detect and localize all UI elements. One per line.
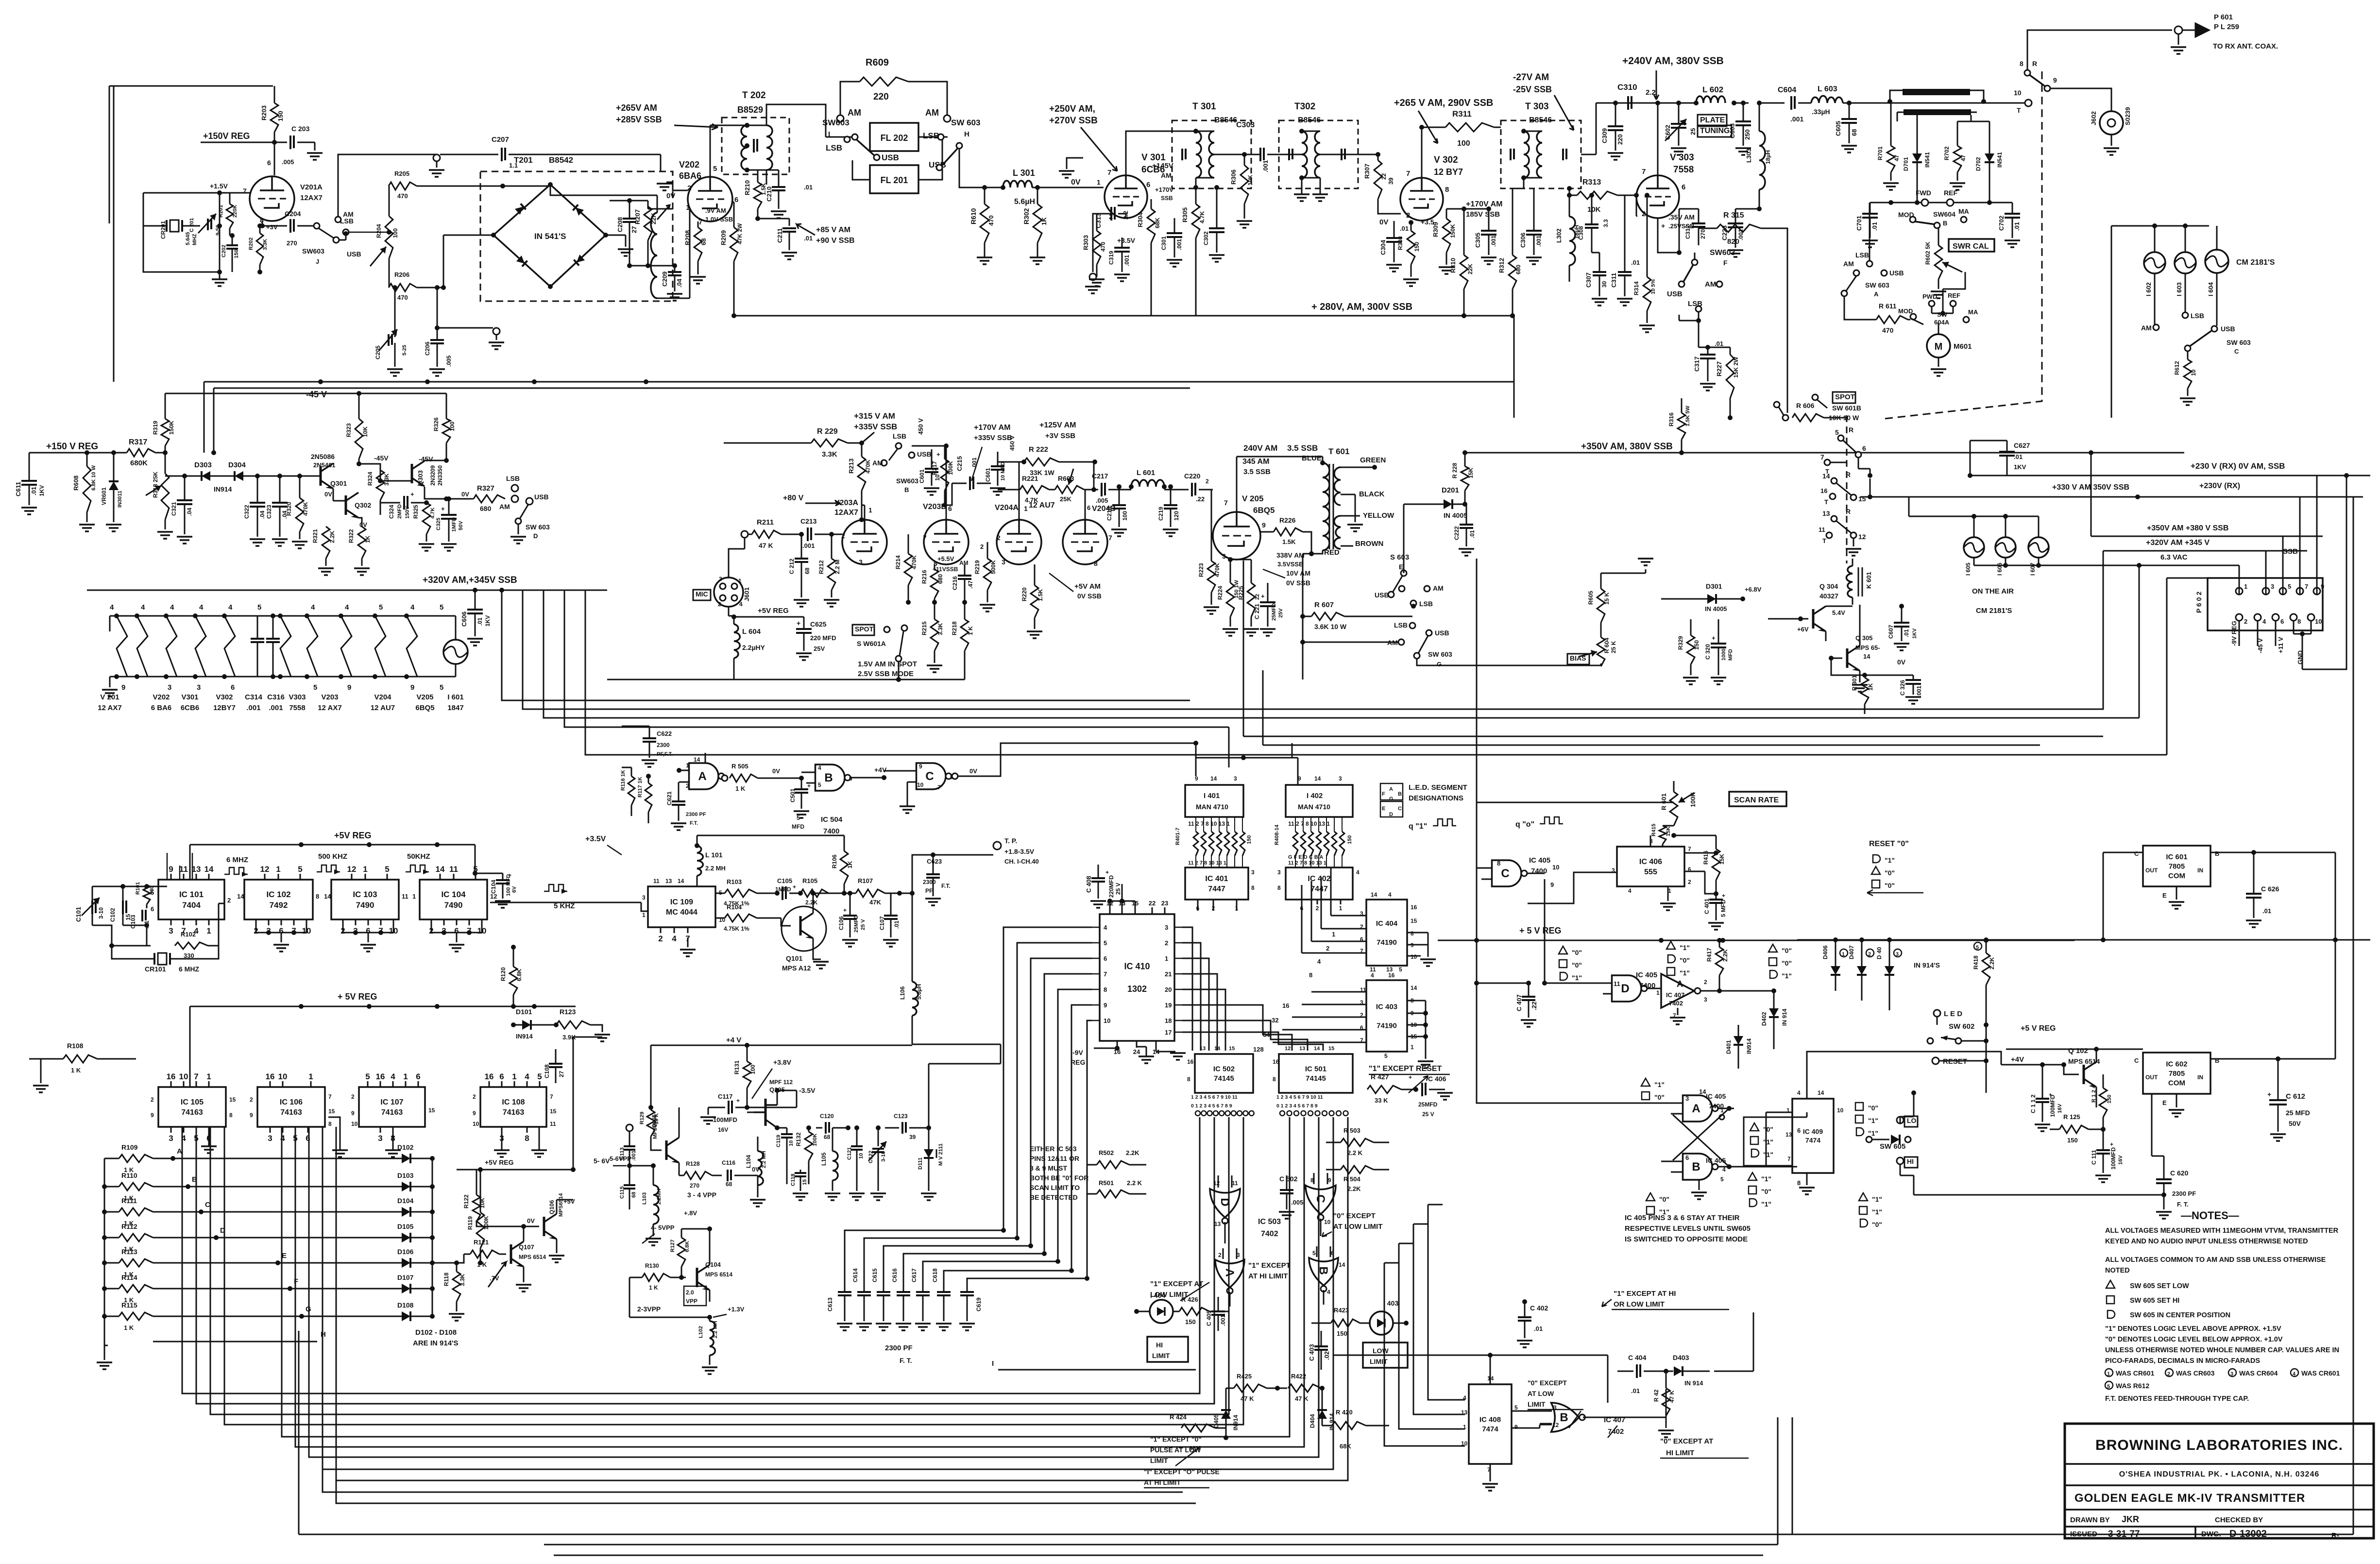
svg-text:"1" EXCEPT RESET: "1" EXCEPT RESET	[1369, 1065, 1442, 1073]
IC IC404 74190	[1360, 891, 1417, 973]
resistor R104 4.75K	[715, 903, 781, 932]
svg-text:"0": "0"	[1572, 949, 1582, 956]
svg-text:R101: R101	[135, 882, 141, 895]
svg-text:C303: C303	[1236, 121, 1255, 129]
svg-text:P L 259: P L 259	[2214, 23, 2239, 31]
wire 74190 to 7447	[1302, 873, 1331, 953]
tube V203A	[834, 499, 887, 566]
bus 5v right	[1797, 937, 2370, 942]
svg-text:"0": "0"	[1654, 1093, 1665, 1101]
LED I403	[1360, 1299, 1409, 1335]
svg-text:D401: D401	[1725, 1040, 1732, 1054]
svg-text:21: 21	[1165, 970, 1172, 978]
svg-text:+285V SSB: +285V SSB	[616, 115, 662, 124]
capacitor C402 .01	[1517, 1299, 1548, 1347]
connector P602	[2195, 578, 2324, 630]
svg-text:16: 16	[1388, 972, 1395, 979]
svg-text:C319: C319	[1108, 251, 1115, 265]
svg-text:C625: C625	[810, 620, 827, 628]
svg-text:R123: R123	[560, 1008, 576, 1016]
svg-text:68: 68	[631, 1192, 637, 1198]
svg-text:15: 15	[1858, 495, 1866, 503]
svg-text:12 AU7: 12 AU7	[371, 704, 395, 712]
svg-text:Q301: Q301	[330, 479, 347, 487]
wire q outputs	[1734, 1112, 1807, 1167]
svg-text:450 V: 450 V	[1009, 436, 1016, 451]
svg-text:R326: R326	[433, 417, 440, 431]
svg-text:4: 4	[311, 603, 315, 612]
svg-text:100MFD: 100MFD	[713, 1116, 737, 1123]
svg-text:I: I	[828, 130, 830, 138]
svg-text:2.2K: 2.2K	[1989, 957, 1995, 969]
resistor R319 150K	[152, 393, 175, 474]
text NOTES header	[2181, 1209, 2239, 1222]
svg-text:SW603: SW603	[1710, 249, 1735, 257]
svg-text:C621: C621	[666, 791, 673, 805]
svg-text:14: 14	[1339, 1261, 1345, 1268]
svg-text:R 606: R 606	[1796, 402, 1815, 409]
svg-text:F.T. DENOTES FEED-THROUGH TY: F.T. DENOTES FEED-THROUGH TYPE CAP.	[2105, 1395, 2249, 1403]
svg-text:"1": "1"	[1872, 1195, 1882, 1203]
capacitor C221 25MFD	[1254, 583, 1284, 636]
svg-text:R314: R314	[1633, 281, 1640, 295]
text 2.0VPP	[684, 1286, 706, 1306]
svg-text:V204B: V204B	[1092, 505, 1116, 513]
wire 63vac relay	[1868, 478, 1872, 499]
svg-text:BE DETECTED: BE DETECTED	[1030, 1193, 1078, 1201]
feedthrough staircase	[845, 1228, 1089, 1282]
svg-text:R227: R227	[1716, 361, 1723, 376]
thumbwheel contact rows	[1191, 1103, 1348, 1116]
svg-text:1MFD: 1MFD	[451, 517, 457, 532]
svg-text:+1.5V: +1.5V	[210, 182, 228, 190]
diode D201 IN4005	[1404, 486, 1467, 573]
svg-text:R226: R226	[1279, 516, 1296, 524]
svg-text:C702: C702	[1998, 216, 2005, 231]
svg-text:R304: R304	[1137, 212, 1144, 227]
svg-text:IC 501: IC 501	[1305, 1065, 1326, 1073]
IC IC106 74163	[250, 1072, 335, 1143]
svg-text:25V: 25V	[814, 645, 825, 652]
svg-text:100: 100	[1122, 511, 1128, 521]
waveform 500KHZ	[317, 852, 347, 874]
resistor R502 2.2K	[1087, 1149, 1146, 1169]
svg-text:.01: .01	[2013, 222, 2021, 231]
svg-text:V302: V302	[216, 693, 233, 701]
svg-text:1: 1	[412, 893, 416, 900]
svg-text:6.8K: 6.8K	[684, 1241, 690, 1252]
svg-text:IN 914: IN 914	[1684, 1379, 1703, 1387]
svg-text:"1": "1"	[1763, 1151, 1773, 1158]
IC IC602 7805	[2134, 1053, 2280, 1117]
svg-text:15 K: 15 K	[1603, 592, 1610, 605]
svg-text:R209: R209	[720, 230, 727, 245]
svg-text:MA: MA	[1958, 207, 1969, 215]
svg-text:C202: C202	[221, 245, 227, 257]
svg-text:8: 8	[1497, 860, 1500, 867]
capacitor C627 .01 1KV	[1970, 441, 2030, 476]
svg-text:V202: V202	[679, 160, 699, 170]
svg-text:"0" EXCEPT: "0" EXCEPT	[1333, 1212, 1376, 1220]
capacitor C604 .001	[1778, 86, 1803, 123]
svg-text:10: 10	[278, 1072, 288, 1081]
svg-text:7: 7	[1406, 170, 1410, 178]
svg-text:100: 100	[449, 422, 456, 431]
svg-text:2.2 MH: 2.2 MH	[713, 1321, 718, 1338]
svg-text:47 K: 47 K	[759, 542, 773, 549]
wire T301 out	[1214, 131, 1260, 154]
IC IC107 74163	[351, 1072, 435, 1143]
svg-text:150: 150	[1246, 835, 1252, 844]
svg-text:10 5%: 10 5%	[1650, 279, 1656, 294]
node LSB left	[826, 136, 850, 153]
svg-text:9: 9	[919, 763, 922, 770]
svg-text:5: 5	[257, 603, 261, 612]
annotation trio D	[1559, 946, 1582, 982]
svg-text:500 KHZ: 500 KHZ	[318, 852, 347, 861]
resistor R504 2.2K	[1326, 1166, 1389, 1192]
svg-text:20: 20	[1165, 986, 1172, 993]
svg-text:240V AM: 240V AM	[1243, 443, 1277, 453]
svg-text:2-3VPP: 2-3VPP	[637, 1305, 661, 1313]
node AM audio	[499, 495, 518, 510]
IC IC409 7474	[1785, 1089, 1844, 1194]
svg-text:3: 3	[168, 683, 171, 692]
svg-text:E: E	[1382, 806, 1385, 812]
resistor R608 6.8K 10W	[72, 453, 97, 531]
svg-text:A: A	[1677, 979, 1683, 989]
svg-text:1: 1	[1656, 989, 1660, 996]
svg-text:D102: D102	[397, 1143, 414, 1151]
wire D403 out	[1714, 1371, 1753, 1372]
capacitor C211 .01	[776, 228, 813, 259]
wire tube plates	[862, 443, 1085, 520]
svg-text:AM: AM	[848, 108, 861, 118]
svg-text:K 601: K 601	[1865, 572, 1872, 589]
svg-text:470K: 470K	[865, 459, 871, 474]
svg-text:BLACK: BLACK	[1359, 490, 1385, 498]
capacitor C316 .001	[266, 613, 280, 679]
svg-text:16: 16	[167, 1072, 176, 1081]
filter FL202	[870, 123, 918, 151]
svg-text:10: 10	[917, 782, 924, 788]
svg-text:1.1: 1.1	[509, 162, 518, 169]
svg-text:4: 4	[110, 603, 114, 612]
svg-text:.001: .001	[1916, 685, 1922, 697]
svg-text:.005: .005	[1291, 1199, 1303, 1206]
svg-text:BROWN: BROWN	[1355, 540, 1383, 548]
svg-text:5: 5	[1720, 1176, 1724, 1183]
resistor R317 680K	[127, 438, 155, 467]
bus +5V REG ctr	[190, 992, 576, 1087]
svg-text:7: 7	[1787, 1156, 1791, 1162]
resistor R203 150	[260, 86, 284, 175]
svg-text:74163: 74163	[381, 1108, 403, 1117]
wire q102c	[2096, 1049, 2143, 1050]
svg-text:12 AU7: 12 AU7	[1029, 501, 1055, 510]
capacitor C501 5MFD	[789, 778, 811, 830]
heater bus bottom	[110, 677, 427, 687]
svg-text:16: 16	[1411, 904, 1417, 911]
svg-text:15: 15	[550, 1108, 557, 1115]
svg-text:74190: 74190	[1377, 938, 1397, 947]
svg-text:220 MFD: 220 MFD	[810, 634, 836, 642]
diode D107	[153, 1274, 435, 1293]
svg-text:USB: USB	[1667, 290, 1683, 298]
svg-text:2.2K: 2.2K	[1126, 1149, 1139, 1156]
svg-text:R114: R114	[121, 1274, 137, 1281]
svg-text:.01: .01	[1715, 340, 1723, 347]
svg-text:LSB: LSB	[893, 432, 906, 440]
node LSB h2	[1394, 621, 1415, 629]
wire gates to displays	[971, 741, 1292, 776]
svg-text:680: 680	[1515, 265, 1522, 274]
switch SW603 F	[1667, 249, 1735, 312]
resistor R226 1.5K	[1260, 516, 1311, 554]
svg-text:I 402: I 402	[1307, 792, 1323, 800]
svg-text:74163: 74163	[181, 1108, 203, 1117]
note sw hi	[2107, 1296, 2179, 1305]
resistor R228 15K	[1451, 450, 1474, 504]
svg-text:C120: C120	[820, 1113, 834, 1120]
svg-text:17: 17	[1165, 1029, 1172, 1036]
svg-text:9: 9	[1550, 881, 1554, 888]
capacitor C614 FT	[852, 1268, 872, 1330]
svg-text:.001: .001	[1123, 255, 1130, 266]
svg-text:M: M	[1935, 341, 1943, 352]
svg-text:L 602: L 602	[1702, 85, 1723, 94]
svg-text:q "1": q "1"	[1409, 822, 1427, 831]
capacitor C612 25MFD	[2267, 1059, 2310, 1141]
resistor R425 47K	[1234, 1373, 1287, 1402]
bus +350V to P602	[2091, 524, 2323, 536]
svg-text:R612: R612	[2174, 361, 2180, 375]
svg-text:100: 100	[392, 228, 399, 238]
svg-text:14: 14	[1822, 472, 1830, 480]
svg-text:+5V: +5V	[563, 1198, 575, 1205]
text +240V AM 380V SSB	[1596, 55, 1724, 103]
svg-text:16: 16	[376, 1072, 385, 1081]
capacitor C303 .001	[1236, 121, 1302, 172]
svg-text:B: B	[1692, 1160, 1700, 1173]
svg-text:6V: 6V	[511, 886, 517, 893]
bus +5V REG mid	[1438, 926, 2074, 943]
svg-text:A: A	[1389, 786, 1393, 792]
svg-text:8: 8	[1277, 884, 1281, 891]
switch SW603 C	[2185, 331, 2251, 355]
text +265V AM 290V SSB	[1394, 98, 1493, 143]
rotary switch 16T	[1820, 487, 1836, 506]
svg-text:D407: D407	[1848, 945, 1855, 959]
svg-text:R210: R210	[744, 180, 751, 195]
svg-text:YELLOW: YELLOW	[1363, 511, 1394, 520]
svg-text:R 504: R 504	[1343, 1175, 1360, 1183]
svg-text:R 315: R 315	[1723, 211, 1744, 220]
resistor R420 68K	[1322, 1409, 1389, 1450]
svg-text:C611: C611	[15, 482, 22, 496]
resistor R701 47	[1877, 102, 1900, 190]
svg-text:MAN 4710: MAN 4710	[1298, 803, 1330, 811]
annotation box	[1744, 1117, 1801, 1166]
node 10 T	[2014, 89, 2032, 114]
resistor R315 820	[1699, 211, 1787, 413]
svg-text:+170V AM: +170V AM	[1466, 200, 1502, 208]
capacitor C325 1MFD 50V	[436, 496, 464, 551]
capacitor C120 68	[816, 1113, 850, 1140]
text .9V AM 1.0V SSB	[705, 207, 733, 223]
svg-text:10 K: 10 K	[654, 1113, 660, 1124]
svg-text:GOLDEN EAGLE MK-IV TRANSMITT: GOLDEN EAGLE MK-IV TRANSMITTER	[2074, 1492, 2305, 1505]
svg-text:V 201: V 201	[100, 693, 119, 701]
svg-text:D108: D108	[397, 1301, 414, 1309]
svg-text:IN: IN	[2197, 1074, 2203, 1081]
svg-text:7492: 7492	[270, 901, 288, 910]
svg-text:R 611: R 611	[1879, 302, 1897, 310]
svg-text:SW 605 IN CENTER POSITION: SW 605 IN CENTER POSITION	[2130, 1311, 2230, 1319]
svg-text:.9V AM: .9V AM	[705, 207, 726, 214]
display I401 MAN4710	[1185, 775, 1243, 827]
svg-text:WAS CR601: WAS CR601	[2301, 1369, 2340, 1377]
capacitor C106 25MFD	[838, 891, 866, 947]
svg-text:R203: R203	[260, 105, 268, 120]
node PWD	[1922, 293, 1937, 306]
svg-text:4: 4	[1797, 1089, 1801, 1096]
node USB h2	[1426, 629, 1449, 637]
svg-text:-9V REG: -9V REG	[2230, 621, 2238, 646]
wire ic410 bottoms	[1156, 1041, 1186, 1060]
wire vco top	[747, 1088, 797, 1107]
diode D401 IN914	[1725, 1025, 1752, 1069]
svg-text:100MFD: 100MFD	[2049, 1095, 2056, 1117]
svg-text:1: 1	[686, 204, 690, 212]
rotary switch 5R6	[1835, 426, 1866, 458]
wire RF line	[1734, 101, 2025, 105]
svg-text:3: 3	[1704, 996, 1707, 1003]
test point TP	[910, 837, 1039, 896]
svg-text:2: 2	[980, 543, 984, 550]
text +125V AM +3V SSB	[1039, 421, 1076, 440]
svg-text:IC 107: IC 107	[380, 1098, 403, 1106]
inductor L301 5.6uH	[1001, 168, 1040, 206]
svg-text:I 606: I 606	[1996, 562, 2003, 576]
svg-text:R216: R216	[921, 570, 928, 584]
wire to J602	[2050, 88, 2111, 111]
svg-text:C616: C616	[891, 1268, 898, 1282]
svg-text:C121: C121	[847, 1147, 852, 1160]
svg-text:V205: V205	[416, 693, 433, 701]
potentiometer R602 5K	[1924, 228, 1962, 298]
svg-text:R310: R310	[1449, 258, 1457, 273]
svg-text:3.3K: 3.3K	[822, 450, 837, 459]
wire	[1932, 272, 1965, 316]
svg-text:CR101: CR101	[145, 965, 166, 973]
svg-text:MIC: MIC	[696, 590, 708, 598]
svg-text:+3.5V: +3.5V	[585, 835, 606, 843]
svg-text:C102: C102	[109, 908, 116, 922]
switch SW602	[1927, 1022, 1989, 1044]
resistor R208 68	[684, 221, 707, 284]
capacitor C105 1MFD	[775, 877, 803, 900]
svg-text:2.2: 2.2	[1646, 88, 1656, 97]
text 1 except hi	[1248, 1261, 1291, 1280]
svg-text:LSB: LSB	[2191, 312, 2204, 320]
svg-text:+350V AM +380 V SSB: +350V AM +380 V SSB	[2147, 524, 2228, 532]
svg-text:8: 8	[2297, 618, 2301, 625]
svg-text:C123: C123	[894, 1113, 908, 1120]
svg-text:OR LOW LIMIT: OR LOW LIMIT	[1614, 1300, 1665, 1309]
svg-text:1K: 1K	[1867, 683, 1874, 691]
svg-text:1: 1	[686, 762, 689, 769]
svg-text:LSB: LSB	[1394, 621, 1408, 629]
svg-text:9: 9	[1262, 521, 1266, 529]
svg-text:604A: 604A	[1934, 319, 1950, 326]
wire	[1302, 616, 1304, 680]
svg-text:24: 24	[1133, 1048, 1140, 1055]
svg-text:D406: D406	[1822, 945, 1829, 959]
node USB	[1881, 269, 1904, 277]
svg-text:MAN 4710: MAN 4710	[1196, 803, 1228, 811]
svg-text:5: 5	[2288, 583, 2291, 590]
node gnd stub	[435, 325, 504, 349]
svg-text:.001: .001	[1176, 238, 1183, 250]
svg-text:C 203: C 203	[291, 125, 310, 133]
resistor R323 10K	[345, 393, 374, 466]
svg-text:"1": "1"	[1782, 972, 1792, 980]
svg-text:C 111: C 111	[2091, 1150, 2097, 1165]
title divider4	[2065, 1526, 2374, 1528]
svg-text:S W601A: S W601A	[857, 640, 886, 647]
svg-text:"0": "0"	[1872, 1221, 1882, 1228]
svg-text:C 502: C 502	[1279, 1175, 1298, 1183]
svg-text:+85 V AM: +85 V AM	[816, 226, 850, 234]
svg-text:"0": "0"	[1763, 1125, 1773, 1133]
wire	[959, 149, 1104, 187]
potentiometer R318 25K	[146, 472, 173, 539]
IC IC104 7490	[412, 865, 497, 935]
svg-text:MA: MA	[1968, 308, 1978, 316]
IC410 pin 7	[1092, 970, 1107, 978]
svg-text:5: 5	[1976, 945, 1979, 951]
svg-text:+150 V REG: +150 V REG	[46, 442, 98, 452]
text 2300 PF FT	[885, 1344, 913, 1364]
svg-text:1 K: 1 K	[649, 1284, 658, 1291]
svg-text:C602: C602	[1664, 125, 1671, 140]
text D102-D108 ARE IN914S	[413, 1328, 459, 1347]
svg-text:F: F	[294, 1277, 298, 1286]
svg-text:1: 1	[868, 506, 872, 514]
svg-text:AM: AM	[925, 108, 939, 118]
node +150V REG 2	[29, 442, 165, 455]
svg-text:IN 914'S: IN 914'S	[1914, 961, 1940, 969]
svg-text:270: 270	[1700, 229, 1706, 239]
wire 7402B out	[1598, 1389, 1666, 1417]
svg-text:+4V: +4V	[2011, 1055, 2024, 1064]
svg-text:.001: .001	[1490, 235, 1497, 247]
resistor R609 220	[840, 57, 947, 115]
svg-text:30: 30	[1601, 281, 1608, 288]
dashed wafer line	[1846, 415, 1848, 563]
text 450 V	[1009, 436, 1016, 451]
svg-text:15: 15	[229, 1096, 236, 1103]
svg-text:C309: C309	[1601, 128, 1608, 143]
diode D304	[214, 461, 260, 493]
svg-text:R 42: R 42	[1653, 1389, 1660, 1402]
capacitor C603 250	[1729, 101, 1751, 155]
svg-text:1.5K: 1.5K	[1282, 538, 1296, 545]
svg-text:R608: R608	[72, 476, 80, 491]
svg-text:5: 5	[440, 603, 443, 612]
svg-text:+170V AM: +170V AM	[974, 424, 1010, 432]
